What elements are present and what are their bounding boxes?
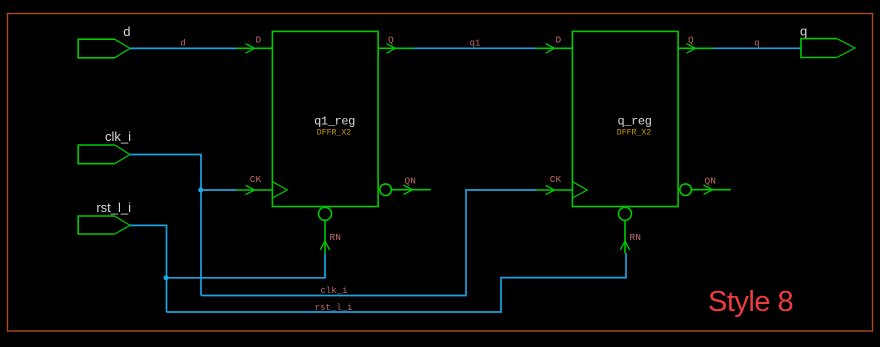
pin QN of q_reg with bubble <box>680 175 731 195</box>
svg-text:clk_i: clk_i <box>105 129 131 144</box>
wire clk_i bottom horizontal run <box>201 190 537 296</box>
wire clk_i branch to q1_reg CK pin <box>201 189 237 191</box>
output port q <box>800 23 855 57</box>
wire rst_l_i branch to q1_reg RN pin <box>167 253 326 277</box>
svg-text:q: q <box>754 39 759 49</box>
pin RN of q_reg with bubble <box>619 207 641 253</box>
input port clk_i <box>78 129 131 164</box>
svg-text:QN: QN <box>405 175 416 186</box>
wire net q <box>713 39 801 49</box>
pin RN of q1_reg with bubble <box>319 207 341 253</box>
svg-text:q: q <box>800 23 807 38</box>
pin D of q1_reg <box>237 35 273 54</box>
svg-text:CK: CK <box>550 174 562 185</box>
svg-text:RN: RN <box>630 232 641 243</box>
svg-text:QN: QN <box>705 175 716 186</box>
pin Q of q_reg <box>678 35 713 54</box>
svg-text:q1: q1 <box>470 39 481 49</box>
pin QN of q1_reg with bubble <box>380 175 431 195</box>
svg-text:rst_l_i: rst_l_i <box>315 303 353 313</box>
svg-text:Q: Q <box>688 35 694 46</box>
svg-text:d: d <box>180 39 185 49</box>
svg-text:DFFR_X2: DFFR_X2 <box>617 129 651 138</box>
pin CK of q_reg <box>537 174 573 195</box>
junction dot rst_l_i at FF1 RN branch <box>164 275 169 280</box>
pin D of q_reg <box>537 35 573 54</box>
flip-flop q1_reg body <box>272 31 378 206</box>
wire net q1 <box>413 39 537 49</box>
clock triangle of q1_reg <box>272 182 287 198</box>
pin Q of q1_reg <box>378 35 413 54</box>
svg-text:rst_l_i: rst_l_i <box>96 200 131 215</box>
wire net clk_i: port to vertical drop <box>130 155 201 296</box>
wire net d <box>130 39 237 49</box>
input port d <box>78 24 130 58</box>
svg-text:Q: Q <box>388 35 394 46</box>
svg-text:D: D <box>256 35 262 46</box>
svg-text:DFFR_X2: DFFR_X2 <box>317 129 351 138</box>
svg-text:Style 8: Style 8 <box>708 286 793 318</box>
input port rst_l_i <box>78 200 131 234</box>
svg-text:q1_reg: q1_reg <box>314 115 355 129</box>
svg-text:d: d <box>123 24 130 39</box>
svg-text:CK: CK <box>250 174 262 185</box>
svg-text:q_reg: q_reg <box>617 115 651 129</box>
clock triangle of q_reg <box>572 182 587 198</box>
svg-text:clk_i: clk_i <box>320 286 347 296</box>
junction dot clk_i at FF1 CK branch <box>198 188 203 193</box>
wire net rst_l_i: port to vertical drop <box>130 225 167 312</box>
svg-text:D: D <box>556 35 562 46</box>
wire rst_l_i bottom horizontal run <box>167 253 627 312</box>
svg-text:RN: RN <box>330 232 341 243</box>
pin CK of q1_reg <box>237 174 273 195</box>
flip-flop q_reg body <box>572 31 678 206</box>
style caption Style 8 <box>708 286 793 318</box>
